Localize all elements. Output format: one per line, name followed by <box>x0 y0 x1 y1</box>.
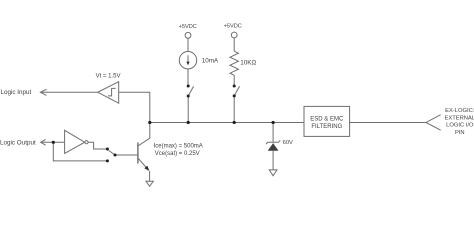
svg-text:EXTERNAL: EXTERNAL <box>444 115 474 121</box>
svg-text:FILTERING: FILTERING <box>311 124 342 130</box>
svg-text:ESD & EMC: ESD & EMC <box>310 116 344 122</box>
svg-text:Logic Input: Logic Input <box>1 89 32 96</box>
svg-text:LOGIC I/O: LOGIC I/O <box>446 123 474 129</box>
svg-text:Ice(max) = 500mA: Ice(max) = 500mA <box>154 143 203 149</box>
svg-text:60V: 60V <box>283 140 293 146</box>
svg-text:Logic Output: Logic Output <box>0 139 36 146</box>
svg-text:+5VDC: +5VDC <box>224 24 242 30</box>
svg-text:EX-LOGIC:: EX-LOGIC: <box>445 108 474 114</box>
svg-text:Vt = 1.5V: Vt = 1.5V <box>96 74 121 80</box>
svg-text:+5VDC: +5VDC <box>179 24 197 30</box>
svg-text:Vce(sat) = 0.25V: Vce(sat) = 0.25V <box>155 151 200 157</box>
svg-text:10KΩ: 10KΩ <box>240 60 256 67</box>
svg-text:10mA: 10mA <box>202 57 219 64</box>
svg-text:PIN: PIN <box>455 130 465 136</box>
